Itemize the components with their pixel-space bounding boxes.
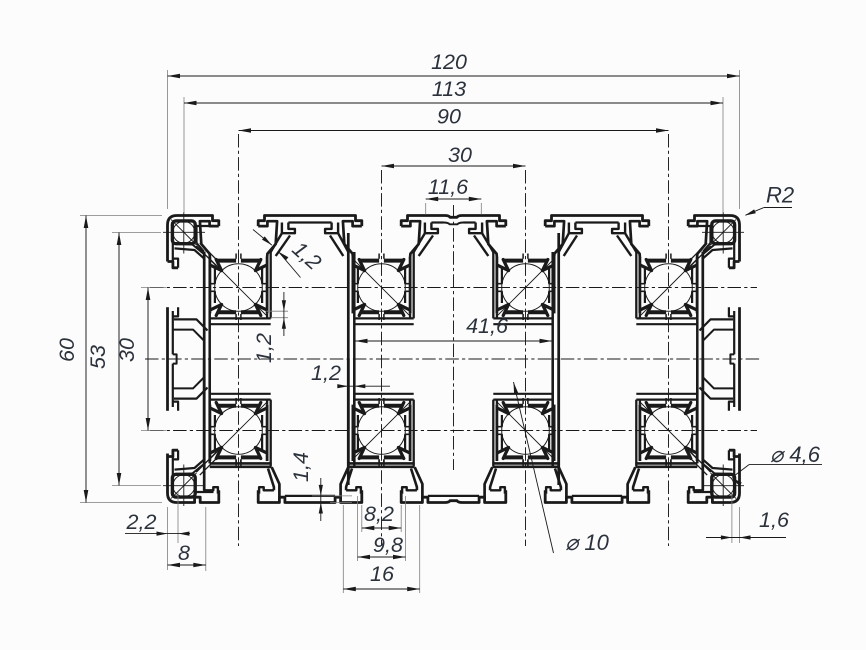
vertical centerline column x=668.5 [668, 134, 670, 546]
dimension 113 [184, 102, 723, 104]
dimension 30 top [382, 165, 526, 167]
dimension 1.6 [706, 537, 786, 539]
boss claws [211, 265, 222, 270]
top half flange from slot C2 to middle with center dip [401, 216, 453, 227]
mirrored bottom band: right half [454, 359, 740, 503]
vertical centerline column x=381.5 [381, 170, 383, 546]
svg-text:30: 30 [448, 143, 472, 167]
svg-text:120: 120 [431, 50, 467, 74]
boss top slit [235, 254, 237, 259]
left outer edge upper segment with corner notch [168, 262, 179, 268]
svg-text:R2: R2 [766, 183, 794, 208]
corner square channel ring [172, 221, 195, 244]
dimension 30 left [147, 288, 149, 431]
dimension 1.2 vertical boss bottom bar [267, 310, 289, 312]
divider wall left of column C1 (runs to side channel) [203, 252, 206, 360]
dimension 120 [168, 75, 740, 77]
flange underside lines (chamber ceilings) [288, 221, 331, 223]
diagonal thin web from corner block to boss C1 cavity [196, 246, 216, 266]
svg-text:41,6: 41,6 [466, 314, 508, 338]
bottom pedestal interior at column 238.5 [203, 487, 218, 493]
leader R2 [764, 207, 792, 209]
screw-boss cavity claw bars at column 381.5 [360, 259, 379, 263]
dimension 2.2 [125, 533, 190, 535]
corner square centerline cross [163, 231, 205, 233]
vertical centerline column x=525.5 [525, 170, 527, 546]
bottom pedestal interior at column 381.5 [341, 467, 349, 497]
T-chamber walls slot C2 [343, 221, 362, 257]
centerline upper circle row [150, 287, 757, 289]
divider C1 lower end meets pedestal shelf [203, 359, 206, 490]
vertical centerline column x=238.5 [238, 134, 240, 546]
corner square diagonal [171, 220, 196, 245]
svg-text:30: 30 [115, 338, 139, 362]
side slot pedestal wall toward middle (floor of side cavity) [174, 319, 208, 330]
divider wall left of column C2 [347, 233, 350, 359]
svg-text:16: 16 [370, 562, 394, 586]
svg-text:2,2: 2,2 [126, 510, 157, 534]
svg-text:⌀ 10: ⌀ 10 [565, 530, 610, 555]
mirrored quadrant: bottom-left [163, 359, 414, 506]
top flange between slots C1 and C2 with lip notches [258, 216, 362, 227]
svg-text:1,2: 1,2 [252, 333, 276, 363]
corner block right wall at slot C1 left chamber with chamfer to divider [195, 226, 197, 243]
side slot upper lip underside and ceiling with chamfer to divider top [173, 259, 178, 268]
horizontal centerline of profile [145, 358, 762, 360]
boss cavity side walls [351, 257, 354, 313]
dimension 1.4 bottom web [312, 495, 352, 497]
svg-text:1,4: 1,4 [289, 452, 313, 482]
corner block inner wall above square [194, 225, 214, 227]
outer corner arc and top face to slot C1 lip notch [168, 216, 219, 262]
bottom thin wall between pedestals C1-C2 with notches [258, 490, 362, 502]
dimension 11.6 [426, 198, 482, 200]
hook left of slot C2 chamber onto divider top [325, 223, 338, 234]
svg-text:⌀ 4,6: ⌀ 4,6 [770, 442, 821, 467]
chamber-side wall right of boss C2, chamber shelf under boss C2 [409, 313, 411, 318]
svg-text:1,6: 1,6 [759, 508, 789, 532]
mirrored quadrant: bottom-right [493, 359, 744, 506]
small jog in left wall at middle height [173, 354, 177, 359]
dimension 1.2 horizontal divider wall [340, 385, 390, 387]
dimension 8 [168, 564, 206, 566]
leader diameter 4.6 [749, 464, 822, 466]
svg-text:9,8: 9,8 [373, 533, 403, 557]
extension lines [167, 70, 169, 209]
mirrored top band: right half [454, 216, 740, 262]
boss cavity side walls [208, 257, 211, 313]
svg-text:11,6: 11,6 [428, 175, 468, 199]
svg-text:8: 8 [178, 541, 190, 565]
svg-text:90: 90 [437, 105, 461, 129]
bottom wall inner face between pedestals [285, 495, 335, 497]
chamber-side wall right of boss C1, chamber shelf under boss C1 [266, 313, 268, 318]
hook right of slot C2 chamber (center chamber ceiling hook) [425, 223, 438, 234]
boss claws [354, 265, 365, 270]
leader diameter 10 [514, 382, 554, 553]
thin diagonal through circle [353, 259, 411, 317]
boss bottom claw bars [360, 310, 379, 314]
corner square inscribed circle d4.6 [173, 221, 195, 243]
boss top slit [378, 254, 380, 259]
dimension 9.8 [358, 556, 406, 558]
bottom half wall from C2 to middle with center dip [401, 490, 453, 502]
svg-text:60: 60 [55, 338, 79, 362]
screw channel circle d10 at (238.5,287.5) [215, 264, 263, 312]
dimension 1.2 diagonal chamfer wall [253, 230, 272, 246]
screw channel circle d10 at (381.5,287.5) [358, 264, 406, 312]
svg-text:53: 53 [86, 345, 110, 369]
dimension 41.6 [355, 340, 552, 342]
dimension 53 [118, 233, 120, 486]
thin diagonal through circle [210, 259, 268, 317]
left edge inner face [172, 229, 174, 261]
dimension 60 [85, 216, 87, 503]
dimension 8.2 [362, 527, 401, 529]
side mouth lower lip and edge notch [173, 307, 178, 316]
T-chamber walls slot C1 [200, 221, 219, 257]
mirrored quadrant: top-right [493, 212, 744, 359]
boss bottom slit [235, 314, 237, 320]
hook right of slot C1 chamber (inter-chamber ceiling left hook) [282, 223, 295, 234]
dimension 90 [239, 130, 669, 132]
svg-text:113: 113 [432, 77, 466, 101]
svg-text:8,2: 8,2 [364, 502, 394, 526]
divider C2 lower end meets its pedestal slant [347, 359, 350, 467]
boss bottom slit [378, 314, 380, 320]
centerline lower circle row [150, 430, 757, 432]
boss bottom claw bars [217, 310, 236, 314]
screw-boss cavity claw bars at column 238.5 [217, 259, 236, 263]
svg-text:1,2: 1,2 [311, 361, 341, 385]
vertical centerline profile middle [453, 205, 455, 470]
outer corner arc bottom and bottom face with notch and pad to slot C1 [168, 454, 219, 503]
dimension 16 [343, 588, 419, 590]
